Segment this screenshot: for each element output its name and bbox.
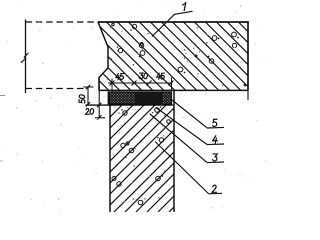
leader to label 2 [155,142,209,194]
dim text 45 (right) [157,73,161,79]
top serif of 50 dim [84,86,94,88]
label 4 digit [213,136,218,144]
top panel (pos.1) outline: top and right edges [98,22,248,90]
speckle dots: top panel [107,27,228,89]
dashed outline of removed panel: bottom [26,88,85,90]
label 5 underline [207,126,224,129]
leader to label 3 [150,114,207,162]
removed panel left edge [25,20,27,94]
speckle dots: bottom panel [113,107,165,200]
label 5 digit [213,119,217,126]
label 2 underline [209,192,223,195]
break symbol on left edge [21,53,29,63]
label 3 digit [213,154,218,161]
hatch: top wall panel concrete [21,14,320,100]
oblique ticks of 20 dim [97,103,101,120]
top panel keyed left end profile [98,22,108,90]
scan noise speckle [3,5,266,211]
aggregate circles: top panel [112,23,246,86]
leader to label 5 [172,100,207,128]
label 1 underline [175,11,193,14]
dim text 50 (rotated) [79,100,85,104]
scan speck left margin [0,95,5,97]
label 2 digit [212,185,217,192]
dashed outline of removed panel: top [26,21,99,23]
extension line below right edge [247,90,249,100]
sealant dark core [135,93,163,104]
dimension 50 vertical [87,87,89,104]
top panel bottom edge [99,89,248,91]
dim text 30 [139,73,143,79]
extension line at x=112 [111,79,113,92]
dimension line 45/30/45 [108,82,173,84]
label 1 digit [183,2,186,10]
scan speck left margin lower [0,160,3,162]
leader to label 4 [156,108,207,145]
label 3 underline [207,161,224,164]
dim text 45 (left) [116,73,120,79]
bottom panel left edge [109,105,111,212]
label 4 underline [207,143,224,146]
oblique ticks of 50 dim [86,85,90,107]
bottom serif of 20 dim [95,117,105,119]
sealant gasket (dark crosshatched strip) [110,92,172,104]
dim text 20 [85,108,89,114]
bottom panel right edge [173,91,175,213]
dimension 20 vertical with extension line [98,78,100,119]
bottom panel top edge [86,104,175,106]
sealant left edge band [108,92,110,105]
oblique ticks on 45/30/45 dimension [110,81,174,86]
extension line at x=171.5 [171,78,173,92]
aggregate circles: bottom panel [112,106,170,205]
hatch: bottom wall panel concrete [4,98,283,212]
leader to label 1 [152,14,175,37]
